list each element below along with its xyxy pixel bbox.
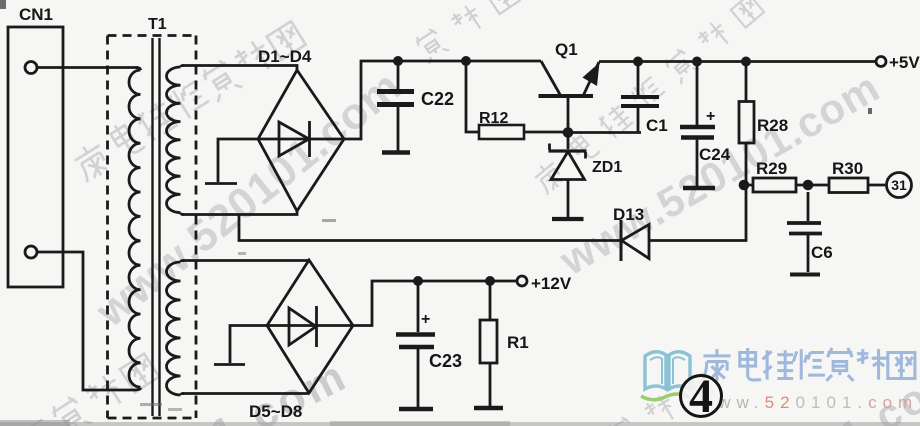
wire bridge D1~D4 to +5V rail	[344, 61, 541, 139]
watermark hanzi partial bottom-middle	[457, 370, 715, 426]
resistor R12	[479, 125, 524, 139]
node C22/rail	[393, 56, 403, 66]
capacitor C1	[637, 62, 640, 133]
CN1 pin 1 terminal	[25, 62, 37, 74]
wire through bridge D1~D4	[258, 138, 344, 141]
logo green underline	[641, 394, 689, 400]
svg-text:Q1: Q1	[555, 40, 578, 59]
svg-text:CN1: CN1	[19, 5, 53, 24]
svg-text:31: 31	[891, 177, 907, 193]
transistor Q1	[541, 61, 560, 95]
node C23/rail	[413, 276, 423, 286]
ground (upper bridge)	[205, 139, 258, 184]
svg-text:+12V: +12V	[531, 274, 572, 293]
watermark hanzi partial bottom-left	[13, 350, 161, 426]
Q1 emitter arrow	[583, 63, 600, 87]
svg-text:+: +	[421, 311, 430, 328]
resistor R28	[745, 62, 748, 186]
logo book icon	[645, 352, 666, 389]
node R28/rail	[741, 57, 751, 67]
wire base node to C1 bottom	[568, 131, 641, 134]
svg-text:D13: D13	[613, 205, 644, 224]
bridge rectifier D1~D4 diamond	[258, 70, 344, 211]
emitter rail from Q1 to +5V	[599, 60, 876, 63]
wire secondary upper bottom to bridge	[182, 210, 297, 215]
watermark partial top-center	[413, 0, 520, 64]
wire D13 to transformer tap	[239, 215, 622, 241]
svg-text:+5V: +5V	[889, 53, 920, 72]
wire node to D13	[649, 185, 746, 241]
T1 secondary winding lower	[167, 261, 185, 396]
transformer T1 dashed box	[108, 36, 197, 419]
T1 secondary winding upper	[167, 66, 185, 215]
wire lower secondary bottom to bridge D5-D8	[182, 392, 308, 395]
svg-text:www.520101.com: www.520101.com	[699, 393, 918, 412]
capacitor C6	[807, 192, 810, 272]
svg-text:D1~D4: D1~D4	[258, 47, 312, 66]
capacitor C24	[696, 62, 699, 187]
svg-text:R12: R12	[479, 110, 508, 127]
connector CN1	[8, 27, 63, 287]
svg-text:R28: R28	[757, 116, 788, 135]
wire through bridge D5~D8	[267, 324, 353, 327]
watermark hanzi line top-left	[70, 17, 307, 183]
resistor R29	[744, 184, 808, 187]
T1 core	[153, 38, 160, 416]
diode D13	[622, 225, 650, 259]
node C24/rail	[692, 57, 702, 67]
diode inside D5~D8	[289, 306, 317, 347]
zener ZD1	[567, 137, 570, 149]
CN1 pin 2 terminal	[25, 246, 37, 258]
node 31 terminal	[887, 173, 912, 198]
svg-text:R29: R29	[756, 159, 787, 178]
svg-text:4: 4	[689, 370, 713, 423]
svg-text:T1: T1	[148, 16, 167, 33]
svg-text:D5~D8: D5~D8	[249, 402, 302, 421]
+12V terminal	[517, 276, 527, 286]
logo hanzi text	[702, 348, 915, 381]
watermark hanzi line top-right	[530, 0, 765, 196]
node R28/R29	[739, 180, 750, 191]
node R1/rail	[485, 276, 495, 286]
junction dots	[393, 56, 813, 286]
T1 primary winding	[129, 68, 141, 391]
svg-text:C6: C6	[811, 243, 833, 262]
diode inside D1~D4	[279, 121, 310, 157]
node R12/rail	[461, 56, 471, 66]
node C1/rail	[633, 57, 643, 67]
svg-text:ZD1: ZD1	[592, 159, 622, 176]
svg-text:R30: R30	[832, 159, 863, 178]
node Q1 base	[563, 127, 574, 138]
capacitor C22	[397, 61, 400, 151]
wire CN1 pin2 to T1 primary bottom	[38, 252, 135, 390]
wire lower secondary top to bridge D5-D8	[182, 259, 309, 262]
wire CN1 pin1 to T1 primary top	[38, 66, 139, 69]
capacitor C23	[417, 281, 420, 407]
resistor R30	[808, 184, 886, 187]
svg-text:C23: C23	[429, 351, 462, 371]
node R29/R30/C6	[803, 180, 814, 191]
svg-text:R1: R1	[507, 333, 529, 352]
scan artifacts	[0, 422, 920, 426]
wire bridge D5~D8 to +12V rail	[353, 281, 517, 326]
svg-text:+: +	[706, 108, 715, 125]
resistor R1	[489, 281, 492, 406]
ground (lower bridge)	[214, 326, 267, 365]
page number circle 4	[681, 376, 722, 417]
wire secondary upper top to bridge	[182, 66, 297, 72]
bridge rectifier D5~D8 diamond	[267, 260, 353, 393]
svg-text:C24: C24	[699, 145, 731, 164]
+5V terminal	[876, 57, 886, 67]
svg-text:C22: C22	[421, 89, 454, 109]
wire rail to R12	[466, 61, 479, 132]
svg-text:C1: C1	[646, 116, 668, 135]
